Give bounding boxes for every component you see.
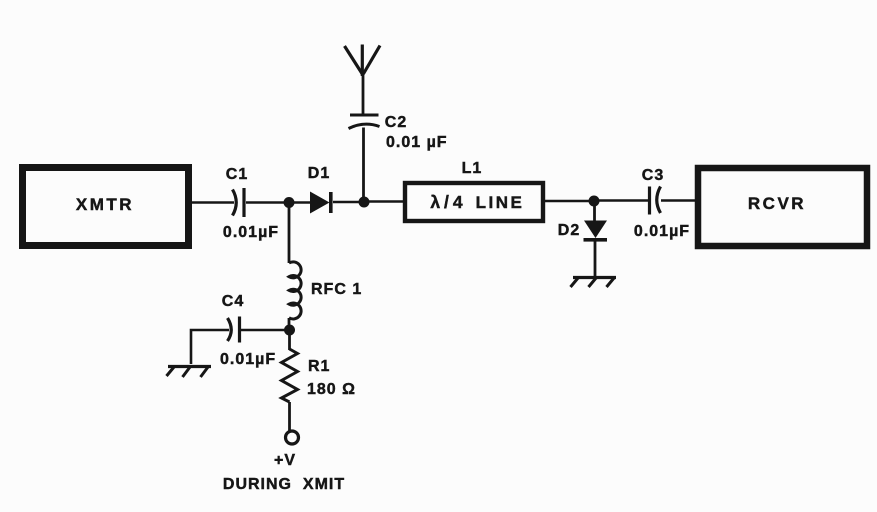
- svg-text:D1: D1: [308, 165, 330, 182]
- capacitor C2: [349, 114, 448, 151]
- wire C4 to ground: [191, 330, 229, 364]
- node C junction: [589, 196, 600, 207]
- diode D2: [558, 205, 607, 277]
- transmitter box XMTR: [23, 168, 189, 246]
- svg-text:0.01µF: 0.01µF: [220, 351, 276, 368]
- node B junction: [359, 197, 370, 208]
- antenna: [345, 45, 381, 77]
- ground for D2: [571, 278, 617, 288]
- svg-text:0.01µF: 0.01µF: [634, 223, 690, 240]
- capacitor C1: [223, 166, 279, 241]
- wire node D to C4: [241, 329, 286, 332]
- wire C2 to antenna: [362, 74, 365, 114]
- wire node B to L1: [368, 200, 405, 203]
- svg-text:LINE: LINE: [476, 193, 525, 212]
- svg-text:RFC 1: RFC 1: [311, 281, 362, 298]
- diode D1: [293, 165, 360, 214]
- resistor R1: [282, 334, 356, 431]
- wire node B to C2: [362, 128, 365, 203]
- terminal +V: [274, 431, 299, 469]
- node D junction: [284, 325, 295, 336]
- svg-text:0.01 µF: 0.01 µF: [386, 134, 448, 151]
- wire node C to C3: [598, 199, 648, 202]
- svg-text:D2: D2: [558, 222, 580, 239]
- wire L1 to node C: [545, 200, 590, 203]
- node A junction: [284, 197, 295, 208]
- svg-text:0.01µF: 0.01µF: [223, 224, 279, 241]
- svg-text:XMTR: XMTR: [76, 195, 134, 214]
- svg-text:R1: R1: [308, 358, 330, 375]
- wire C3 to RCVR: [661, 199, 696, 202]
- svg-text:λ/4: λ/4: [430, 192, 466, 212]
- svg-text:C2: C2: [385, 114, 407, 131]
- capacitor C4: [220, 293, 276, 368]
- svg-text:C1: C1: [226, 166, 248, 183]
- svg-text:RCVR: RCVR: [748, 194, 806, 213]
- inductor RFC1: [289, 262, 362, 319]
- svg-text:180 Ω: 180 Ω: [307, 381, 356, 398]
- wire C1 to node A: [246, 201, 286, 204]
- receiver box RCVR: [698, 168, 867, 246]
- svg-text:C3: C3: [642, 167, 664, 184]
- ground for C4: [167, 367, 212, 378]
- svg-text:C4: C4: [222, 293, 244, 310]
- svg-text:+V: +V: [274, 452, 296, 469]
- wire XMTR to C1: [191, 201, 234, 204]
- quarter-wave line L1: [405, 160, 543, 221]
- wire RFC1 to node D: [288, 318, 291, 328]
- svg-text:DURING XMIT: DURING XMIT: [223, 476, 345, 493]
- svg-text:L1: L1: [462, 160, 483, 177]
- wire node A to RFC1: [288, 206, 291, 263]
- capacitor C3: [634, 167, 690, 240]
